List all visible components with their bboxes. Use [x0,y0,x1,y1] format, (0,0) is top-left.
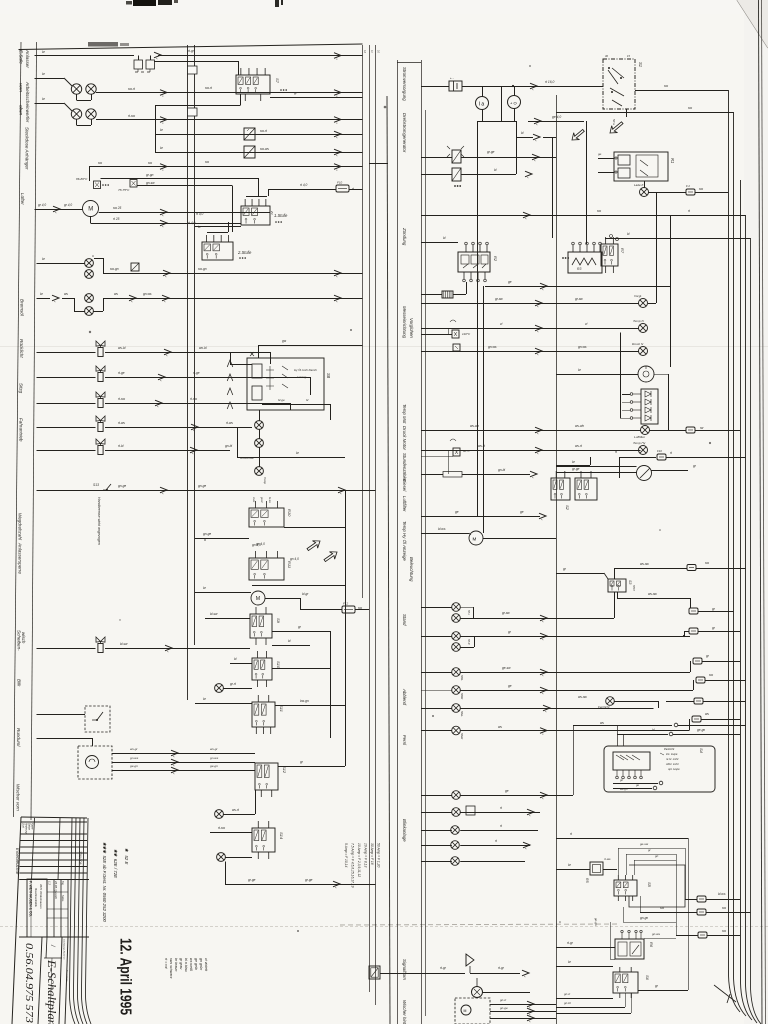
wire row blink lamp2 [421,812,540,814]
wire s9 in [205,618,250,620]
wire m2 out [265,598,342,610]
wire ammeter links [483,86,515,121]
relay R11 [249,551,284,580]
svg-text:sw: sw [98,161,103,165]
connector box X2 [244,146,255,158]
wire s6 in [556,966,613,968]
lamp fern R [452,726,461,735]
connector circle s4a [659,781,663,785]
flasher box 2 [452,168,461,181]
svg-text:rt-sw: rt-sw [190,397,198,401]
fuse F17 [698,932,707,938]
svg-text:58 L: 58 L [467,610,471,616]
switch S13 [103,484,111,491]
lamp anzeige 3 [255,467,264,476]
svg-text:sw: sw [722,906,727,910]
svg-text:56aR: 56aR [460,733,464,739]
svg-text:lnk. Hupe: lnk. Hupe [666,752,678,756]
svg-text:ge-sw: ge-sw [640,842,649,846]
left rail bus 4 corner [369,96,390,1024]
chevron fern [543,705,550,713]
wire wiper rear 1 [490,1004,556,1006]
wire s1 out sw [635,90,728,92]
wire row abblend L [421,661,691,673]
fuse F6 [693,658,702,664]
relay S7 [236,68,270,101]
switch Sitz 1 [96,366,105,382]
chevron arb2 [160,117,167,125]
chevron brems2a [52,295,59,303]
svg-text:gr-ge: gr-ge [248,878,256,882]
svg-text:gr-ge: gr-ge [572,467,580,471]
chevron fernr [540,728,547,736]
connector circles 238 [610,235,619,241]
small col labels [63,939,68,982]
right edge bundle line 1 [729,90,741,1012]
svg-text:gr-ge: gr-ge [487,150,495,154]
chevron bottom [333,881,340,889]
title block frame [12,817,87,1024]
svg-text:78-75°C: 78-75°C [118,188,130,192]
svg-text:S2: S2 [565,505,570,511]
wire row blink lamp5 [421,861,525,863]
chevron 215 [523,212,530,220]
svg-text:Hy Öl noch blanch: Hy Öl noch blanch [294,368,317,372]
relay S2 box1 [551,471,570,500]
svg-text:sw-rt: sw-rt [260,129,267,133]
svg-text:rt-bl: rt-bl [118,444,124,448]
fuse F7 [696,677,705,683]
lamp fern L [452,704,461,713]
connector circle s4b [653,786,657,790]
wire fahrantrieb vert 1 [310,377,312,395]
wire br 2stufe [195,226,241,228]
svg-text:F 2: F 2 [686,184,690,188]
chevron Ruecklicht [164,349,171,357]
svg-text:vi: vi [585,322,588,326]
wire row Bremsoel 1 [37,258,363,274]
washer pump unit [78,746,112,779]
svg-text:bl-ws: bl-ws [438,527,446,531]
wire s6 row4 [556,1013,631,1015]
wire r10 out [284,527,345,529]
wire row gn-gn 922 [623,907,676,923]
right edge bundle line 3 [741,180,753,1020]
fold line lower [0,926,768,928]
svg-text:1 Gang: 1 Gang [297,375,307,379]
svg-text:ge-gn: ge-gn [130,764,138,768]
svg-text:gr-sw: gr-sw [502,611,510,615]
lamp abblend L [452,668,461,677]
svg-text:gn-ws: gn-ws [143,292,152,296]
svg-text:sw-rt: sw-rt [205,86,212,90]
wire s5 rows [618,848,686,899]
svg-text:0.56.04.975 573: 0.56.04.975 573 [23,943,35,1024]
ammeter 1 [476,97,489,110]
thermoswitch 110C [450,320,459,338]
svg-text:M: M [464,1009,467,1013]
wiper rear unit [455,998,490,1024]
svg-text:sw: sw [597,209,602,213]
svg-text:Änderung: Änderung [25,822,28,834]
chevron w2 [171,759,178,767]
relay 1.Stufe [241,199,270,225]
wire plug row [421,282,467,295]
svg-text:gr-sw: gr-sw [495,297,503,301]
scanner mark top-left [126,0,178,6]
pins R2 bottom [463,272,487,282]
svg-text:sw: sw [205,160,210,164]
wire s10 in [230,663,252,665]
wire row flasher1 [421,157,556,159]
wire s8 bottom 1 [262,404,331,420]
svg-text:Tag: Tag [61,881,64,886]
wire row blink lamp3 [421,830,538,832]
svg-text:Rücklicht: Rücklicht [19,339,24,358]
svg-text:ge-gn: ge-gn [210,764,218,768]
svg-text:ge: ge [455,510,459,514]
chevron s13a [160,487,167,495]
wire washer row 2 [112,762,255,764]
chevron brems1 [163,270,170,278]
wire f16 [640,896,751,913]
svg-text:sw: sw [688,106,693,110]
wire row 215 [421,215,746,217]
svg-text:ws: ws [114,292,118,296]
svg-text:ws-wh: ws-wh [575,424,584,428]
wire f10b out [666,457,746,459]
svg-text:M: M [256,596,260,602]
glow block feed [620,333,630,419]
wire s8 gw [258,345,363,358]
relay R2 [458,252,490,272]
svg-text:M: M [88,207,93,213]
svg-text:S3: S3 [628,580,632,584]
svg-text:+ -: + - [450,76,454,80]
chevron rt25 [160,220,167,228]
title block extra verticals [31,879,52,1024]
fuse F5 [687,565,696,571]
wire row 238 [605,238,751,240]
page corner top-right [737,0,768,48]
svg-text:S11: S11 [279,705,284,712]
svg-text:gr-ge: gr-ge [305,878,313,882]
svg-text:ws weiß: ws weiß [189,958,193,972]
connector K1 [134,60,155,72]
fuse on rail 2 [188,108,198,116]
wire f11 out [698,611,734,613]
wire m2 feed [195,592,251,594]
svg-text:gn-rt: gn-rt [500,998,506,1002]
pins R2 top [465,242,489,252]
svg-text:110°C: 110°C [462,332,471,336]
svg-text:Fahrantrieb: Fahrantrieb [19,418,24,442]
svg-text:ws-sw: ws-sw [578,695,588,699]
wire row flasher2 [421,121,517,175]
svg-text:12. April 1995: 12. April 1995 [117,938,134,1015]
relay S3 [608,579,626,592]
title bottom band [19,937,89,1024]
wire row vorgluehen [421,192,657,304]
fuse F9 [686,427,695,433]
wire s14 in [210,832,252,834]
lamp fernlicht ind [606,697,615,706]
svg-text:ge: ge [508,684,512,688]
svg-text:Signalhorn: Signalhorn [402,959,407,981]
svg-text:Lade K: Lade K [634,183,645,187]
relay S2 box2 [575,471,597,500]
wire washer row 3 [112,770,255,772]
svg-text:10 Amp = F 2,3,9,11,12: 10 Amp = F 2,3,9,11,12 [357,843,361,877]
svg-text:S8: S8 [326,373,331,379]
wire row Anlasser [35,56,363,61]
glow block pins [630,393,641,420]
wire s8 top [230,352,252,365]
chevron Sitz 1 [158,374,165,382]
svg-text:Drehstromgenerator: Drehstromgenerator [402,113,407,153]
relay S14 [252,821,275,859]
lamp vorgluehen [639,299,648,308]
wire wiper rear 2 [490,1011,556,1013]
svg-text:Bremsöl: Bremsöl [20,299,25,317]
pins R3 top [572,242,602,252]
wire s5 loop [629,865,685,907]
svg-text:Name: Name [31,823,34,830]
arrow hydraulic 1 [305,537,322,553]
svg-text:56bR: 56bR [460,693,464,699]
wire ladek fuse [649,192,687,194]
svg-text:gn-gn: gn-gn [594,918,598,926]
title block fine grid [19,822,89,880]
chevron Fahrantrieb 1 [191,424,198,432]
svg-text:Benennung: Benennung [66,970,68,982]
svg-text:Z4: Z4 [270,210,274,215]
wire row Arbeitsscheinwerfer 1 [35,78,363,101]
wire f12 out [355,609,369,611]
wire f6 out [702,661,740,663]
battery symbol [449,76,462,91]
wire gn-gn 2 [610,922,615,960]
lamp wischer ktrl [215,684,224,693]
wire row rt 838 [556,838,688,840]
chevron w3 [171,767,178,775]
starter motor [469,531,483,545]
svg-text:Handbremse wirkt angezogen: Handbremse wirkt angezogen [97,497,101,545]
svg-text:Temp N: Temp N [633,319,644,323]
ignition switch S1 [603,59,635,109]
svg-text:gn-bl: gn-bl [225,444,232,448]
junction stand r [683,635,685,637]
relay S6 [613,967,638,998]
lamp bremsoel 2b [85,307,94,316]
title mid cell texts [48,880,65,902]
connector horn [369,966,380,979]
svg-text:R11: R11 [287,561,292,568]
svg-text:ge-gn: ge-gn [697,728,705,732]
svg-text:ws: ws [498,725,502,729]
svg-text:S1: S1 [638,62,643,67]
svg-text:50 a: 50 a [612,119,616,125]
wire fahrantrieb vert 2 [290,403,292,410]
component S8 gearbox switch [247,352,324,410]
scanner mark top-center [275,0,283,7]
svg-text:86-80°C: 86-80°C [76,177,88,181]
svg-text:S7: S7 [275,78,280,84]
svg-text:S13: S13 [93,483,99,487]
svg-text:bl: bl [443,236,446,240]
wire s3 out bottom [617,592,691,608]
wire row Luefter thermostat [89,167,363,182]
chevron battery [530,83,537,91]
svg-text:ge 4,0: ge 4,0 [552,115,561,119]
svg-text:gn-rt: gn-rt [564,992,570,996]
svg-text:rt-ws: rt-ws [226,421,233,425]
left rail bus 3 [375,45,377,1005]
right margin labels [402,67,414,1024]
svg-text:sw: sw [699,187,704,191]
svg-text:S12: S12 [282,766,287,774]
svg-text:F10: F10 [337,181,343,185]
svg-text:✱ 52 E: ✱ 52 E [124,848,129,864]
svg-text:re bl. Licht: re bl. Licht [666,757,679,761]
wire gauge right [652,470,689,472]
svg-text:bl a blau: bl a blau [184,958,188,972]
svg-text:ws: ws [600,721,604,725]
svg-text:R5: R5 [585,878,589,883]
svg-text:ge: ge [520,510,524,514]
svg-text:bl: bl [627,232,630,236]
svg-text:rt-gr: rt-gr [188,49,195,53]
wire innenleuchte [37,714,86,716]
lamp blink 4 [451,841,460,850]
chevron dn [535,348,542,356]
svg-text:sw-rt: sw-rt [128,87,135,91]
wire r1 in 2 [598,172,614,174]
wire s4 row ge [613,788,652,790]
relay R5 [590,862,603,875]
svg-text:Maschinenfabrik: Maschinenfabrik [34,888,38,908]
lamp druck n [639,347,648,356]
chevron wr2 [527,1008,534,1016]
svg-text:bl: bl [652,728,655,732]
chevron tn [535,325,542,333]
chevron fl1 [532,154,539,162]
switch Fahrantrieb 2 [96,439,105,455]
svg-text:126/ 008: 126/ 008 [78,851,82,864]
hour meter [638,366,654,382]
svg-text:gn-ge: gn-ge [198,484,206,488]
wire row anlass ge [421,516,540,518]
relay S10 [252,651,272,687]
svg-text:ws-gn: ws-gn [620,787,628,791]
wire sitz vert [270,352,272,364]
right rail main bus x556 [556,95,558,1024]
relay R10 [249,501,284,527]
svg-text:Zündung: Zündung [402,227,407,246]
wire row Ruecklicht [37,352,271,354]
connector box X1 [244,128,255,140]
wire r10 in [195,538,249,540]
svg-text:bl: bl [288,639,291,643]
lamp s14 ktrl [217,853,226,862]
wire wiper rear 3 [490,1018,556,1020]
thermoswitch 90C [450,439,460,456]
relay S12 [255,763,278,797]
svg-text:M: M [473,537,477,542]
wire lamp s14 [226,857,253,859]
wire f13 out [701,719,740,721]
wire row fern L [421,701,694,709]
left rail bus 2 [369,45,371,992]
svg-text:ws-rt: ws-rt [478,444,485,448]
svg-text:bl-gr: bl-gr [302,592,309,596]
wire s6 row3 [556,1007,625,1009]
svg-text:bl: bl [306,398,309,402]
scan noise specks [89,65,711,932]
wire 90c branch [421,450,453,474]
chevron wisch [165,645,172,653]
svg-text:Stand: Stand [402,614,407,626]
wire gn-sw [137,178,259,232]
chevron res [530,471,537,479]
left mid vertical bus 1 [187,45,189,700]
svg-text:R3: R3 [577,267,581,271]
wire s3 feed [556,573,608,579]
svg-text:56bL: 56bL [460,675,464,681]
relay 2.Stufe [202,235,233,260]
svg-text:ge gelb: ge gelb [194,958,198,970]
svg-text:S9: S9 [276,618,281,624]
svg-text:Vorglühen: Vorglühen [409,318,414,338]
svg-text:S4: S4 [699,748,704,754]
left border line B [31,42,37,820]
svg-text:Datum: Datum [28,823,31,830]
note star 1 [124,848,129,864]
fuse F2 [686,189,695,195]
wire horn link [470,973,520,975]
chevron wr3 [527,1015,534,1023]
dots 2stufe [239,257,246,259]
svg-text:ws-rt: ws-rt [575,444,582,448]
switch wischer [96,637,105,653]
arrow s1 50a [607,119,625,136]
wire blink vert bundle [574,725,624,795]
lamp stand R1 [452,632,461,641]
relay R1 [614,152,668,181]
flasher box 1 [447,146,464,163]
switch Ruecklicht [96,341,105,357]
wire rt25 [91,217,242,224]
svg-text:gn-ws: gn-ws [210,756,219,760]
connector small bremsoel [131,263,139,271]
wire s12 out [278,766,345,768]
horn funnel [466,954,474,973]
note star 3 [102,842,107,922]
left border line A [14,42,22,817]
wire row abblend R [421,680,694,691]
lamp s12 ktrl [215,810,224,819]
page curl hook [714,985,736,1003]
chevron brems2c [162,295,169,303]
svg-text:rt: rt [615,450,617,454]
svg-text:1.Stufe: 1.Stufe [274,213,288,218]
svg-text:rt-sw: rt-sw [128,114,136,118]
motor Luefter M1 [83,201,99,217]
svg-text:gw: gw [282,339,287,343]
wire horn out [483,992,531,994]
fuse F11 [689,608,698,614]
fuse F11b [689,628,698,634]
